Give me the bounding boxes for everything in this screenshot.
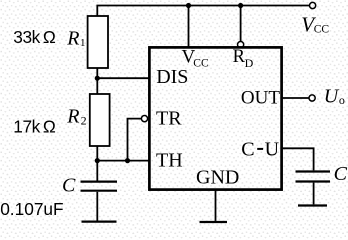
wire: Rd pin drop [240,6,242,42]
wire: R2 bottom to capacitor C [96,146,98,181]
IC U1 (555 timer) body [149,47,281,189]
wire: TH to IC [97,160,150,162]
ground (IC GND) [200,221,228,223]
wire: bypass cap to ground [313,183,315,205]
wire: OUT to terminal [282,97,310,99]
pin label TH [156,150,183,172]
svg-text:C: C [62,175,76,197]
svg-text:D: D [245,56,254,70]
label C (bypass) [334,163,348,185]
wire: DIS to IC [97,77,150,79]
ground (bypass cap) [298,204,327,206]
label 33k ohm [13,27,56,47]
resistor R2 [90,94,110,146]
svg-text:1: 1 [80,37,86,49]
svg-text:CC: CC [193,58,209,70]
terminal Vcc [310,2,316,8]
svg-text:17k Ω: 17k Ω [13,116,56,136]
node: TR junction on TH wire [125,158,130,163]
svg-text:R: R [66,27,79,49]
svg-text:33k Ω: 33k Ω [13,27,56,47]
svg-text:TH: TH [156,150,183,172]
svg-text:U: U [265,138,280,160]
label C (timing) [62,175,76,197]
pin label OUT [241,88,280,109]
wire: GND pin to ground [215,190,217,221]
ground (timing cap) [82,220,117,222]
svg-text:GND: GND [196,166,239,188]
pin label C-U [241,138,279,160]
pin label GND [196,166,239,188]
wire: Vcc pin drop [188,6,190,48]
pin label VCC [182,46,209,69]
pin label TR [156,108,182,130]
wire: top rail from R1 to Vcc terminal [97,6,309,17]
pin bubble Rd [238,42,244,48]
pin bubble TR [141,116,147,122]
svg-text:CC: CC [314,23,330,35]
label 0.107uF [0,199,63,219]
svg-text:R: R [66,105,79,127]
svg-text:TR: TR [156,108,182,130]
terminal Uo [309,95,315,101]
pin label DIS [156,66,188,88]
wire: C-U pin to bypass capacitor [282,148,314,170]
svg-text:0.107uF: 0.107uF [0,199,63,219]
svg-text:o: o [339,93,345,107]
svg-text:C: C [241,139,254,161]
svg-text:OUT: OUT [241,88,280,109]
svg-text:C: C [334,163,348,185]
capacitor C (timing) [81,182,118,191]
node: top rail / Vcc pin junction [186,3,191,8]
label R1 [66,27,85,49]
label Uo [324,86,345,108]
svg-text:U: U [324,86,340,108]
capacitor C (bypass) [296,172,331,182]
label R2 [66,105,86,127]
wire: TR branch [128,119,142,161]
node: top rail / Rd pin junction [238,3,243,8]
pin label RD [233,47,254,70]
node: DIS junction [95,76,100,81]
resistor R1 [88,16,108,68]
wire: C to ground [96,192,98,221]
wire: R1 bottom to R2 top [96,68,98,94]
label 17k ohm [13,116,56,136]
svg-text:DIS: DIS [156,66,188,88]
node: TH junction at R2/C [95,158,100,163]
svg-text:2: 2 [81,114,87,128]
label Vcc (supply) [301,13,329,37]
